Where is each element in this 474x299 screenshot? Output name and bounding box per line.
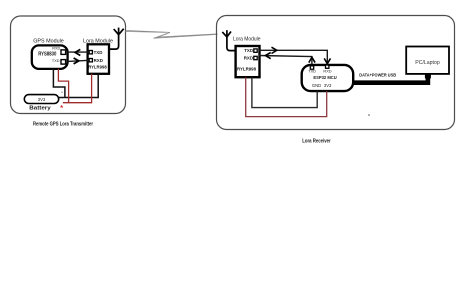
arrowhead left on TXD-RXD wire (75, 49, 80, 55)
wire Lora TXD to GPS RXD (68, 51, 89, 53)
wire red ESP32 3V3 to Lora RX (246, 77, 327, 116)
arrowhead left into Lora RXD (265, 53, 270, 59)
antenna receiver (222, 30, 235, 50)
svg-text:RYLR998: RYLR998 (237, 67, 256, 73)
arrowhead right on GPS TXD wire (74, 58, 79, 64)
arrowhead right on Lora TXD wire (272, 47, 277, 53)
wire GND black GPS to battery (53, 69, 65, 98)
wire red battery to Lora TX (63, 74, 92, 103)
ESP32 MCU U4 (302, 65, 354, 91)
GPS module U1 RYS8830 (32, 45, 68, 69)
svg-text:RXD: RXD (244, 56, 253, 61)
Lora module U2 RYLR998 (transmitter) (88, 44, 109, 74)
pin TXD of Lora module TX (89, 50, 102, 55)
receiver enclosure box (217, 16, 455, 130)
svg-text:PC/Laptop: PC/Laptop (415, 60, 440, 66)
pin TXD of Lora RX (244, 48, 257, 53)
svg-text:GPS Module: GPS Module (33, 38, 64, 44)
svg-text:3V3: 3V3 (38, 97, 46, 102)
wire GPS TXD to Lora RXD (68, 60, 89, 61)
arrowhead down into ESP32 RXD (324, 58, 330, 63)
svg-text:RYLR998: RYLR998 (88, 64, 107, 70)
arrowhead up from ESP32 TXD (309, 57, 315, 62)
PC/Laptop (406, 47, 449, 74)
pin TXD of GPS module (52, 59, 66, 64)
svg-text:Lora Receiver: Lora Receiver (302, 139, 331, 145)
svg-text:Lora Module: Lora Module (233, 37, 261, 43)
antenna transmitter (109, 28, 123, 49)
pin RXD of GPS module (52, 46, 65, 54)
battery BT1 3V3 (24, 95, 58, 104)
wire red GPS 3V3 (58, 69, 68, 103)
USB cable to PC (353, 75, 428, 83)
pin RXD of ESP32 (323, 65, 331, 74)
transmitter enclosure box (11, 16, 126, 114)
svg-text:TXD: TXD (94, 50, 103, 55)
pin TXD of ESP32 (308, 66, 316, 74)
wire black ESP32 GND to Lora RX (252, 77, 317, 107)
svg-text:Battery: Battery (29, 106, 51, 112)
svg-text:RXD: RXD (323, 69, 331, 74)
svg-text:ESP32 MCU: ESP32 MCU (313, 75, 337, 81)
svg-text:Remote GPS Lora Transmitter: Remote GPS Lora Transmitter (33, 121, 94, 127)
svg-text:3V3: 3V3 (324, 83, 332, 88)
svg-text:TXD: TXD (52, 59, 60, 63)
svg-text:GND: GND (312, 83, 321, 88)
Lora module U3 RYLR998 (receiver) (236, 46, 260, 77)
wire Lora TXD to ESP32 RXD (260, 50, 328, 65)
gray speck (61, 92, 62, 93)
RF link zigzag bolt (126, 30, 218, 38)
svg-text:TXD: TXD (244, 48, 253, 53)
svg-text:RYS8830: RYS8830 (38, 51, 56, 57)
dark speck near bottom (368, 114, 370, 116)
svg-text:RXD: RXD (94, 58, 103, 63)
USB connector plug (425, 73, 431, 78)
pin RXD of Lora RX (244, 56, 257, 61)
wire black battery to Lora TX (58, 74, 99, 98)
svg-text:TXD: TXD (308, 69, 316, 74)
svg-text:RXD: RXD (52, 46, 60, 50)
svg-text:DATA+POWER USB: DATA+POWER USB (359, 72, 396, 78)
pin RXD of Lora module TX (89, 58, 103, 63)
wire ESP32 TXD to Lora RXD (259, 56, 312, 66)
